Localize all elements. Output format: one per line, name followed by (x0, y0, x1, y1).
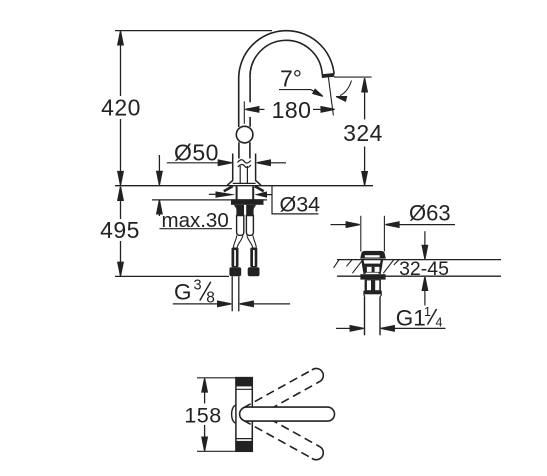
dimension G1 1/4 line right (381, 326, 395, 331)
dimension 158 line (204, 379, 206, 404)
dimension G3/8 line right (240, 301, 254, 306)
drain body in band (362, 260, 364, 274)
solid handle lever (240, 407, 335, 421)
spout inner arc (250, 40, 322, 78)
pipe right edge upper (249, 78, 251, 102)
svg-text:32-45: 32-45 (399, 258, 449, 280)
dimension D63 extension lines (360, 216, 362, 252)
body (D50) right edge with flare (256, 154, 261, 186)
spout outlet bar (322, 73, 335, 78)
dimension 495 bottom arrow (118, 262, 123, 276)
escutcheon wing left (224, 186, 233, 191)
dimension D34 right arrow (254, 191, 267, 197)
drain taper (364, 294, 365, 296)
dimension 420 top arrow (118, 31, 123, 45)
dimension 180 left arrow (245, 107, 258, 112)
dimension max.30 lower arrow (157, 200, 162, 214)
outlet horizontal reference line (334, 76, 372, 78)
svg-text:180: 180 (272, 97, 312, 123)
max.30 reference line under washers (152, 199, 267, 201)
dimension D50 line left (167, 162, 219, 164)
dimension 420 bottom arrow (118, 172, 123, 186)
drain cap dome (360, 251, 386, 259)
hatch lines right (383, 260, 393, 273)
shank left edge (236, 187, 238, 200)
dimension 158 extension bottom (197, 450, 236, 452)
pipe below ball (238, 142, 240, 158)
svg-text:495: 495 (100, 217, 140, 243)
dimension D34 left arrow (209, 193, 217, 195)
svg-text:7°: 7° (280, 66, 302, 92)
threaded rod left (black upper) (234, 205, 237, 209)
svg-text:Ø50: Ø50 (174, 140, 219, 166)
hose cap right (248, 267, 260, 276)
dimension 420 vertical line (120, 32, 122, 97)
dimension D50 line right (257, 160, 271, 165)
svg-text:1: 1 (424, 305, 431, 319)
rod lower white left (237, 216, 244, 236)
outlet stream line (7 deg) (328, 77, 333, 115)
svg-text:G1: G1 (396, 306, 426, 331)
drain nut bar (360, 274, 385, 279)
dimension 324 bottom arrow (362, 172, 367, 186)
dimension 495 vertical line (120, 187, 122, 219)
svg-text:Ø34: Ø34 (280, 193, 321, 217)
body inner lines (239, 166, 241, 183)
svg-text:158: 158 (184, 403, 221, 427)
top view black band top (236, 378, 252, 387)
hose neck curves (233, 235, 236, 247)
svg-text:420: 420 (101, 95, 141, 121)
svg-text:Ø63: Ø63 (409, 201, 451, 226)
dimension 495 top arrow (118, 187, 123, 201)
dimension 158 extension top (197, 377, 236, 379)
svg-text:3: 3 (194, 278, 202, 294)
dimension max.30 underline (160, 228, 233, 230)
mounting nut bar (231, 199, 264, 205)
dimension 324 vertical line (364, 78, 366, 119)
drain flange (363, 291, 381, 295)
dimension 32-45 lower line (422, 277, 427, 291)
bottom extension line (hose ends) (115, 275, 229, 277)
svg-text:G: G (174, 280, 192, 305)
dashed swung handle upper (243, 366, 326, 420)
hose cap left (229, 267, 241, 276)
dimension 32-45 upper line (424, 231, 426, 246)
svg-text:324: 324 (343, 120, 383, 146)
body (D50) left edge with flare (227, 154, 232, 186)
dimension 180 right arrow (313, 108, 322, 110)
top extension line (420 top) (115, 30, 272, 32)
7 deg leader line (279, 90, 318, 94)
hose left (232, 248, 239, 268)
svg-text:4: 4 (436, 316, 443, 330)
dimension G3/8 line left (173, 303, 218, 305)
top view black band bottom (236, 441, 252, 451)
spout outer arc and left pipe edge (239, 31, 334, 127)
threaded rod right (black upper) (254, 205, 257, 209)
hose right (250, 248, 257, 268)
hatch lines left (334, 260, 339, 268)
supply pipe G3/8 (231, 276, 233, 311)
dimension D63 line left (331, 224, 347, 226)
dimension G1 1/4 line left (336, 327, 351, 329)
dimension D34 leader (267, 186, 319, 214)
shank right edge (252, 187, 254, 200)
handle ball joint (236, 126, 253, 143)
rod lower white right (246, 216, 253, 236)
drain tailpipe (364, 297, 366, 336)
counter band top line (337, 259, 501, 261)
body bottom line (233, 182, 256, 184)
7 deg angle arc (340, 81, 352, 96)
escutcheon wing right (255, 186, 264, 191)
top view cartridge bulge (232, 405, 236, 423)
dimension D63 line right (386, 222, 400, 227)
dimension max.30 upper arrow (158, 155, 160, 172)
body break squiggle (238, 160, 251, 163)
dashed swung handle lower (243, 408, 326, 462)
top view body rectangle (236, 378, 252, 452)
dimension 324 top arrow (362, 78, 367, 92)
dimension 180 extension tick (243, 101, 245, 124)
countertop line (115, 185, 373, 187)
drain threaded section (365, 280, 381, 291)
counter band bottom line (337, 275, 501, 277)
